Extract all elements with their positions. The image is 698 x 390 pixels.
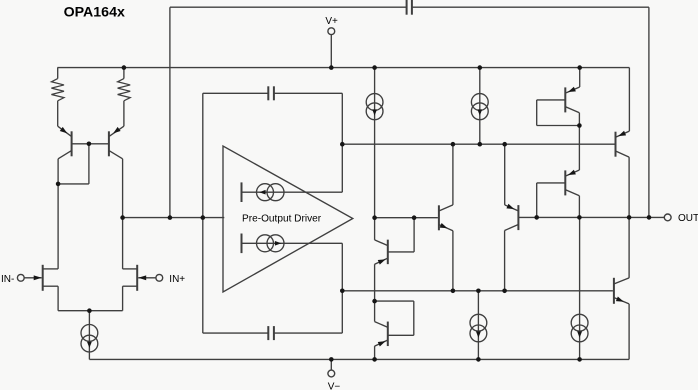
svg-text:V+: V+: [325, 16, 338, 27]
svg-text:OUT: OUT: [678, 213, 698, 224]
svg-text:Pre-Output Driver: Pre-Output Driver: [242, 213, 322, 224]
svg-text:IN+: IN+: [169, 274, 185, 285]
svg-text:OPA164x: OPA164x: [64, 5, 125, 21]
svg-text:V−: V−: [328, 382, 341, 390]
svg-text:IN-: IN-: [1, 274, 14, 285]
